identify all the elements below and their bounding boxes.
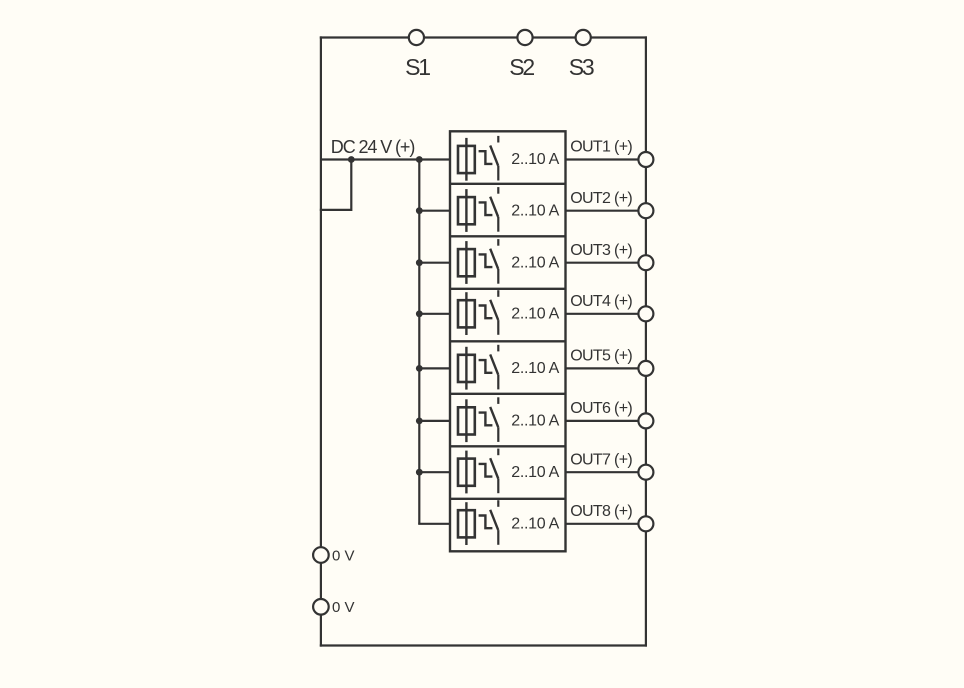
- channel divider: [450, 235, 566, 237]
- svg-text:OUT8 (+): OUT8 (+): [570, 503, 632, 520]
- svg-text:DC 24 V (+): DC 24 V (+): [331, 137, 415, 157]
- fuse F5 (channel 5): [458, 347, 475, 390]
- fuse F7 (channel 7): [458, 451, 475, 494]
- junction dot (bus / channel 5): [416, 365, 423, 372]
- svg-text:2..10 A: 2..10 A: [511, 202, 559, 219]
- wire: output of channel 5 to terminal OUT5: [566, 367, 646, 369]
- wire: output of channel 1 to terminal OUT1: [566, 158, 646, 160]
- terminal 0 V (lower): [313, 599, 329, 615]
- wire: branch to channel 6: [419, 420, 450, 422]
- svg-text:2..10 A: 2..10 A: [511, 464, 559, 481]
- svg-text:S1: S1: [405, 54, 430, 80]
- svg-text:OUT5 (+): OUT5 (+): [570, 348, 632, 365]
- fuse F3 (channel 3): [458, 241, 475, 284]
- wire: branch to channel 3: [419, 262, 450, 264]
- fuse F2 (channel 2): [458, 189, 475, 232]
- wire: output of channel 6 to terminal OUT6: [566, 420, 646, 422]
- junction dot (bus / channel 2): [416, 207, 423, 214]
- fuse F6 (channel 6): [458, 399, 475, 442]
- terminal S2: [517, 30, 532, 45]
- svg-text:2..10 A: 2..10 A: [511, 305, 559, 322]
- svg-text:0 V: 0 V: [332, 599, 355, 616]
- terminal OUT7: [638, 465, 653, 480]
- svg-text:S3: S3: [569, 54, 594, 80]
- svg-text:OUT7 (+): OUT7 (+): [570, 451, 632, 468]
- wire: output of channel 3 to terminal OUT3: [566, 262, 646, 264]
- wire: branch to channel 4: [419, 313, 450, 315]
- wire: branch to channel 7: [419, 471, 450, 473]
- junction dot (bus / channel 6): [416, 418, 423, 425]
- junction dot (bus / channel 1): [416, 156, 423, 163]
- svg-text:2..10 A: 2..10 A: [511, 151, 559, 168]
- junction dot (DC feed / stub): [348, 156, 355, 163]
- terminal S3: [576, 30, 591, 45]
- svg-text:2..10 A: 2..10 A: [511, 254, 559, 271]
- wire: DC 24 V (+) feed from left rail to fuse block: [321, 158, 450, 160]
- circuit-breaker contact (channel 3): [479, 239, 499, 284]
- svg-text:OUT4 (+): OUT4 (+): [570, 293, 632, 310]
- wire: output of channel 7 to terminal OUT7: [566, 471, 646, 473]
- channel divider: [450, 393, 566, 395]
- wire: output of channel 2 to terminal OUT2: [566, 210, 646, 212]
- wire: branch to channel 5: [419, 367, 450, 369]
- circuit-breaker contact (channel 1): [479, 136, 499, 181]
- svg-text:2..10 A: 2..10 A: [511, 413, 559, 430]
- junction dot (bus / channel 3): [416, 259, 423, 266]
- wire: output of channel 8 to terminal OUT8: [566, 523, 646, 525]
- circuit-breaker contact (channel 8): [479, 500, 499, 545]
- circuit-breaker contact (channel 5): [479, 345, 499, 390]
- wire: output of channel 4 to terminal OUT4: [566, 313, 646, 315]
- fuse F8 (channel 8): [458, 502, 475, 545]
- channel divider: [450, 340, 566, 342]
- terminal OUT5: [638, 361, 653, 376]
- wire: branch to channel 8: [418, 523, 450, 525]
- channel divider: [450, 498, 566, 500]
- fuse F1 (channel 1): [458, 138, 475, 181]
- svg-text:OUT6 (+): OUT6 (+): [570, 400, 632, 417]
- wire: +24 V vertical distribution bus: [418, 160, 420, 524]
- module outline: 8-channel electronic fuse block: [450, 131, 566, 551]
- wire: right frame rail (output-side rail): [645, 36, 647, 646]
- terminal OUT3: [638, 255, 653, 270]
- svg-text:2..10 A: 2..10 A: [511, 360, 559, 377]
- terminal OUT2: [638, 203, 653, 218]
- wire: bottom return wire: [320, 644, 647, 646]
- svg-text:OUT2 (+): OUT2 (+): [570, 190, 632, 207]
- terminal OUT6: [638, 413, 653, 428]
- svg-text:2..10 A: 2..10 A: [511, 515, 559, 532]
- channel divider: [450, 288, 566, 290]
- terminal OUT8: [638, 516, 653, 531]
- fuse F4 (channel 4): [458, 292, 475, 335]
- wire: top supply bus (S1-S2-S3 line): [320, 36, 647, 38]
- svg-text:OUT1 (+): OUT1 (+): [570, 139, 632, 156]
- junction dot (bus / channel 4): [416, 310, 423, 317]
- wire: input stub loop: [320, 160, 352, 210]
- terminal 0 V (upper): [313, 547, 329, 563]
- junction dot (bus / channel 7): [416, 469, 423, 476]
- svg-text:0 V: 0 V: [332, 547, 355, 564]
- terminal OUT1: [638, 152, 653, 167]
- circuit-breaker contact (channel 4): [479, 290, 499, 335]
- svg-text:S2: S2: [509, 54, 534, 80]
- circuit-breaker contact (channel 7): [479, 449, 499, 494]
- terminal OUT4: [638, 306, 653, 321]
- wire: left frame rail (0 V return, left side): [320, 36, 322, 646]
- wire: branch to channel 2: [419, 210, 450, 212]
- channel divider: [450, 183, 566, 185]
- svg-text:OUT3 (+): OUT3 (+): [570, 242, 632, 259]
- terminal S1: [409, 30, 424, 45]
- circuit-breaker contact (channel 2): [479, 187, 499, 232]
- channel divider: [450, 445, 566, 447]
- circuit-breaker contact (channel 6): [479, 397, 499, 442]
